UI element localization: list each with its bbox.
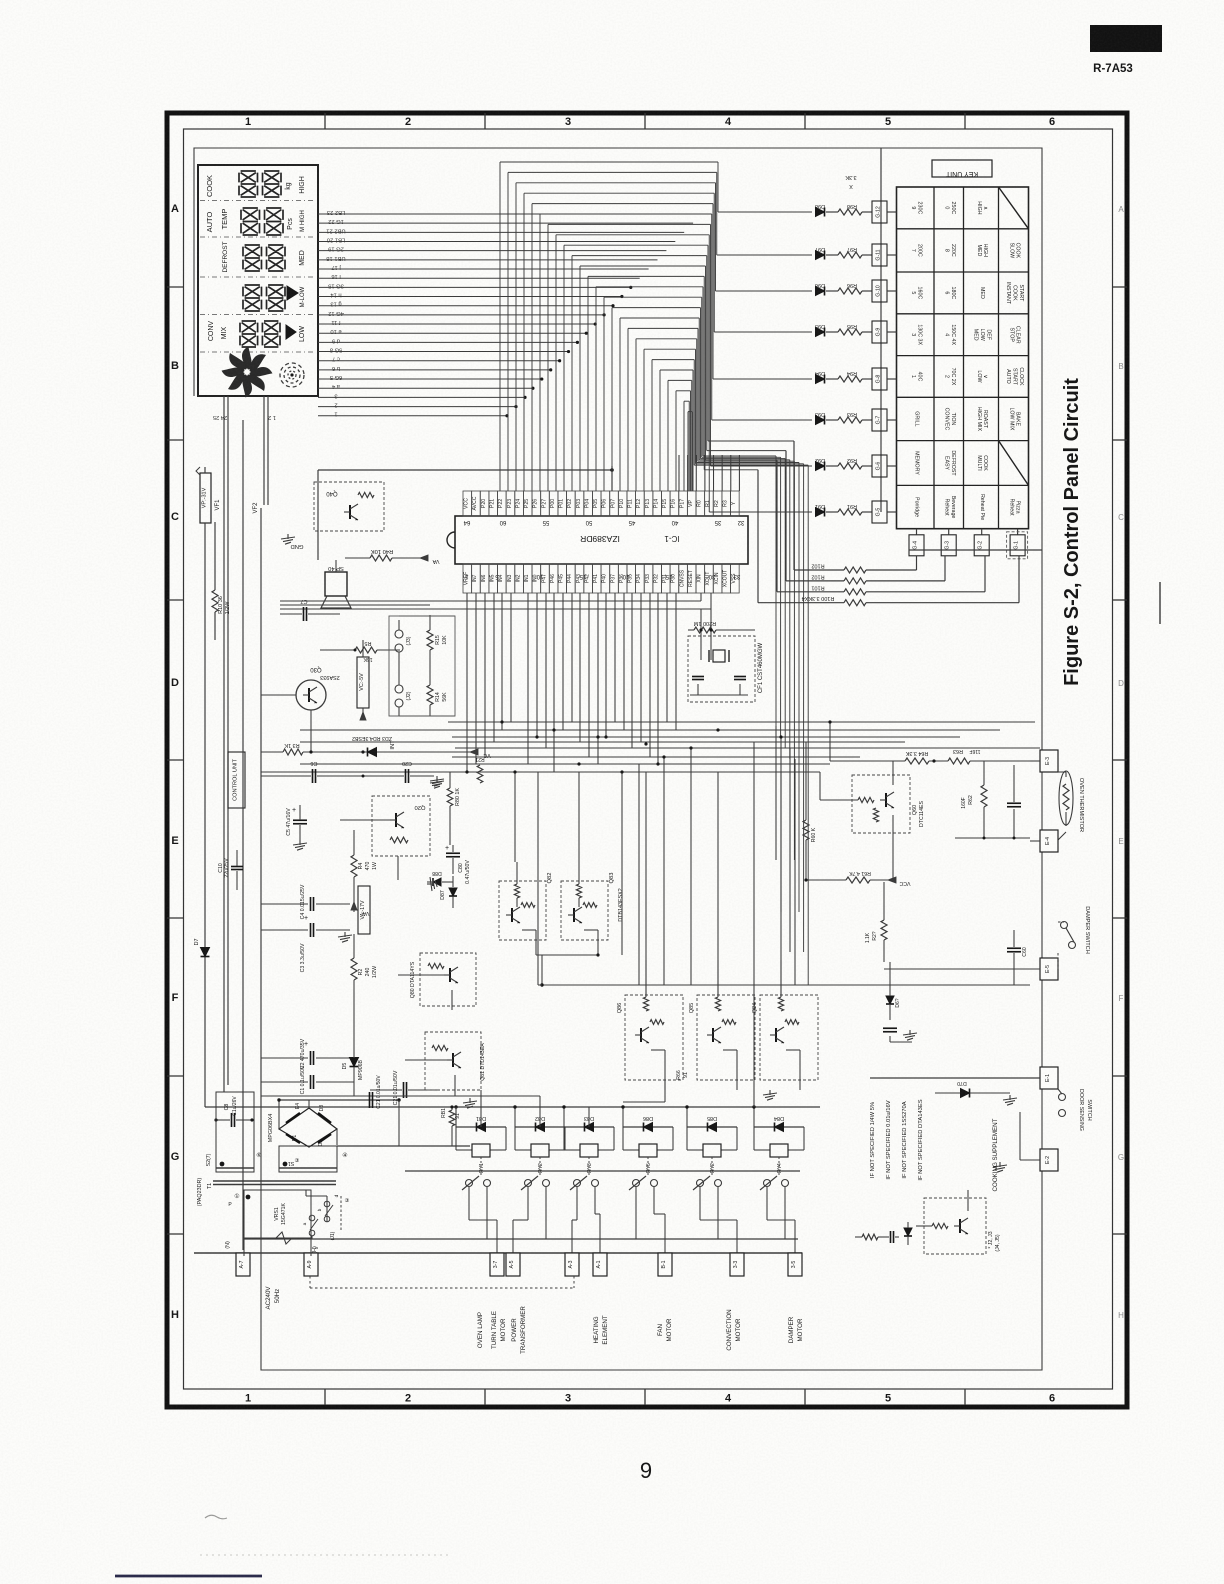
C2 470u/35V: [261, 1038, 354, 1069]
bridge rectifier MPG06BX4: [268, 1100, 337, 1147]
C80 0.47u/50V: [445, 845, 471, 884]
IC bottom pin row: [463, 564, 739, 593]
relay feed verticals: [456, 1080, 779, 1150]
relay driver rail: [405, 1170, 800, 1172]
R80 1K: [430, 772, 461, 845]
R60: [803, 780, 817, 880]
capacitor C8: [214, 1096, 253, 1127]
relay contact wiring to terminals: [469, 1187, 795, 1253]
resistor R10 36 1/2W: [212, 494, 231, 640]
speaker SP40: [321, 560, 351, 608]
terminal E-2: [993, 1112, 1058, 1172]
IC right pin stubs to ledge: [679, 455, 739, 491]
ceramic resonator CF1 CST460MGW: [688, 609, 764, 702]
model number text R-7A53: [1093, 63, 1133, 75]
page number 9: [640, 1458, 652, 1483]
C3 3.3u/50V: [261, 915, 352, 972]
VF1 VF2 labels: [215, 499, 259, 514]
diode D7: [194, 938, 210, 956]
comparator transistor Q60 DTC114ES: [820, 761, 925, 880]
C21 0.01u/50V: [261, 1070, 540, 1105]
C60: [1007, 930, 1028, 985]
transistor network Q20: [340, 796, 430, 880]
relay RY3 with diode D83: [562, 1105, 614, 1190]
jumper J3 J2: [395, 620, 412, 716]
op IC U1 IZA389DR body: [447, 516, 748, 579]
load labels: [477, 1306, 804, 1354]
R65 1.1K: [865, 882, 887, 962]
diode D70: [935, 1080, 1017, 1105]
R2 240 1/2W: [351, 934, 378, 1030]
R4 470 1W: [351, 830, 378, 916]
wire bundle to IC and key unit: [500, 162, 812, 985]
driver Q80 DTA114YS: [398, 953, 476, 1010]
display wire pin labels: [326, 209, 345, 417]
bottom-left dark rule: [115, 1575, 262, 1578]
terminal E-5 + damper switch: [884, 906, 1090, 980]
oven thermistor network resistors R64 R63: [830, 748, 1040, 764]
R62 160K and C61: [955, 761, 1030, 840]
D60 and C61 small: [883, 962, 917, 1042]
INT label: [390, 740, 396, 750]
relay RY2 with diode D85: [685, 1105, 737, 1190]
fan symbol (pinwheel): [221, 346, 273, 398]
fluorescent display unit outline: [198, 165, 318, 396]
black redaction box (logo): [1090, 25, 1162, 52]
driver Q81 DTD143EA: [405, 1032, 486, 1096]
terminal strip: [194, 1253, 802, 1276]
electrolytic C5 47u/16V: [286, 805, 307, 850]
C6 C26 C20 row: [261, 756, 485, 788]
resistor R40 10K: [345, 548, 439, 564]
power transformer T1 PAQ23DR secondary S2: [206, 1092, 262, 1172]
VA -17V box: [358, 886, 370, 934]
relay RY4 with diode D84: [752, 1105, 804, 1190]
right descender wires: [776, 722, 860, 985]
C4 0.015u/25V: [261, 884, 350, 919]
control panel circuit boundary box: [194, 148, 1042, 1370]
coupling capacitor C7: [280, 598, 430, 621]
R61 4.7K / VCC: [804, 870, 910, 886]
right margin registration dash: [1159, 582, 1161, 624]
IC drop wires to drivers: [515, 742, 781, 1107]
driver row Q86 Q85 Q84: [617, 960, 818, 1100]
zener ZD3 RD4.3ESB2 + R3 1K: [261, 735, 491, 758]
relay feed resistor RB1: [441, 1098, 477, 1146]
display filament leads 24 25 / 1 2: [213, 396, 276, 1092]
key column terminals G-1..G-4: [909, 529, 1028, 559]
varistor VRS1 15G471K: [244, 1203, 306, 1244]
interlock switch (J1): [244, 1190, 350, 1249]
resistors R15 10K R14 56K: [389, 615, 455, 716]
relay RY1 with diode D81: [454, 1105, 506, 1190]
figure title: [1061, 378, 1083, 686]
transformer core: [197, 1178, 336, 1207]
D5 MP906B: [342, 1030, 364, 1096]
cooking supplement label: [992, 1118, 999, 1191]
key matrix table: [897, 187, 1029, 529]
7-segment display digits: [239, 171, 285, 347]
display legend labels: [205, 175, 306, 342]
mid junction bus: [536, 953, 1030, 986]
ground at display driver: [281, 534, 303, 549]
G box vertical rail: [880, 148, 882, 512]
transistor Q30 2SA933: [261, 666, 340, 752]
relay RY5 with diode D86: [621, 1105, 673, 1190]
relay RY2 with diode D82: [513, 1105, 565, 1190]
junction dots on buses: [465, 720, 831, 773]
convection fan symbol (dashed circles): [280, 363, 304, 387]
IC top pin row: [463, 491, 739, 516]
AC input labels: [225, 1239, 798, 1310]
C1 0.1u/50V: [261, 1065, 354, 1094]
key scan diodes D91-D98 with resistors R91-R98: [815, 174, 897, 523]
buzzer drive Q40: [314, 466, 614, 560]
faint pencil smudges: [200, 1515, 450, 1555]
transformer primary P: [228, 1190, 311, 1256]
display segment wires: [318, 214, 702, 417]
resistor R5 16K: [320, 640, 400, 662]
DC output wire and C21: [277, 1075, 470, 1146]
switch transistor Q83: [561, 862, 624, 955]
VC -5V box: [357, 640, 369, 720]
supplement transistor box: [916, 1190, 1001, 1254]
control unit label: [228, 752, 245, 808]
display group divider dash-dot lines: [200, 201, 316, 353]
oven thermistor symbol: [1058, 771, 1084, 840]
capacitor C10 22u/25V: [218, 850, 243, 890]
diodes D88 D87: [427, 870, 457, 908]
if-not-specified notes: [855, 1099, 924, 1245]
terminal E-1 + door sensing switch: [870, 1067, 1092, 1131]
key unit label box: [932, 160, 992, 177]
transformer secondary S1 winding box: [279, 1146, 348, 1172]
switch transistor Q82: [499, 862, 553, 955]
VP supply box: [196, 467, 211, 1107]
dashed interlock line: [310, 1276, 574, 1288]
left rails: [205, 420, 820, 1250]
terminal E-4: [955, 830, 1058, 852]
terminal E-3: [1030, 750, 1058, 772]
key return resistors R100-R102: [758, 441, 1019, 606]
display arrows: [286, 286, 298, 339]
IC bottom pin wires and buses: [261, 593, 1040, 772]
G box link wire: [909, 549, 1042, 551]
